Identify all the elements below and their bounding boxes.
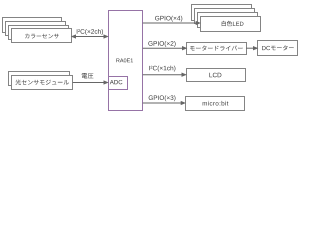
- wire GPIO(x4) RA0E1 -> white LED: [143, 21, 201, 24]
- label GPIO(×2): [148, 41, 175, 47]
- label DCモーター: [262, 45, 294, 50]
- label RA0E1: [116, 58, 133, 62]
- label I²C(×1ch): [149, 66, 175, 72]
- label I²C(×2ch): [77, 29, 103, 35]
- label 白色LED: [222, 21, 244, 26]
- LCD box: [187, 69, 246, 82]
- label 光センサモジュール: [15, 79, 69, 85]
- label micro:bit: [203, 101, 229, 106]
- wire 電圧 light sensor -> ADC: [73, 81, 108, 84]
- color sensor front box カラーセンサ: [12, 29, 72, 43]
- label GPIO(×3): [149, 95, 176, 101]
- wire I2C(x1ch) RA0E1 -> LCD: [143, 73, 186, 76]
- light sensor stack (光センサモジュール) back layer: [9, 72, 70, 86]
- white LED stack (白色LED) back layers: [192, 5, 252, 21]
- label モータードライバー: [190, 45, 243, 50]
- wire I2C(x2ch) double arrow color sensor <-> RA0E1: [72, 35, 109, 38]
- micro:bit box: [186, 97, 245, 111]
- label LCD: [209, 73, 221, 78]
- MCU box RA0E1: [109, 11, 143, 111]
- label 電圧: [82, 73, 94, 78]
- wire GPIO(x3) RA0E1 -> micro:bit: [143, 101, 186, 104]
- label カラーセンサ: [25, 34, 59, 39]
- wire motor driver -> DC motor: [246, 47, 258, 50]
- wire GPIO(x2) RA0E1 -> motor driver: [143, 47, 187, 50]
- white LED front box 白色LED: [201, 17, 261, 32]
- label GPIO(×4): [155, 16, 182, 22]
- label ADC: [110, 80, 123, 84]
- motor driver box モータードライバー: [187, 43, 247, 55]
- DC motor box DCモーター: [258, 41, 298, 56]
- light sensor front box 光センサモジュール: [12, 76, 73, 90]
- block diagram: RA0E1 MCU system: [0, 0, 300, 117]
- color sensor stack (カラーセンサ) back layers: [3, 18, 62, 33]
- ADC block inside MCU: [109, 77, 128, 90]
